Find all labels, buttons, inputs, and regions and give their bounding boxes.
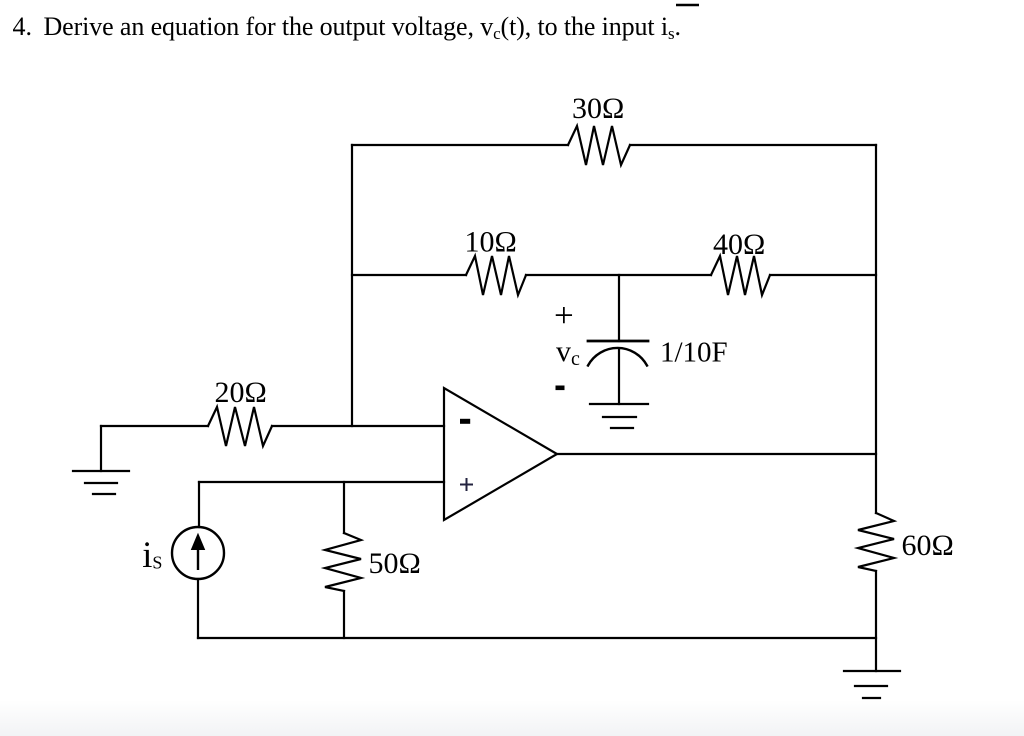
wire top left segment [352, 144, 568, 146]
capacitor C top plate [588, 340, 648, 343]
wire plus input [199, 481, 444, 483]
resistor R 50ohm [325, 533, 361, 591]
ground capacitor [590, 404, 648, 428]
wire bottom [198, 637, 876, 639]
wire output [557, 453, 876, 455]
svg-text:30Ω: 30Ω [572, 92, 624, 125]
wire minus input [101, 425, 208, 427]
svg-text:20Ω: 20Ω [215, 376, 267, 409]
wire source bottom lead [197, 579, 199, 638]
wire left vertical [351, 145, 353, 426]
wire right vertical [875, 145, 877, 513]
ground left [73, 471, 129, 494]
wire capacitor tap [618, 275, 620, 341]
wire top right segment [630, 144, 876, 146]
op-amp U1 [444, 388, 557, 520]
svg-text:40Ω: 40Ω [713, 228, 765, 261]
svg-text:50Ω: 50Ω [369, 547, 421, 580]
label minus vc [556, 386, 565, 391]
wire mid right segment [770, 274, 876, 276]
wire 60ohm to ground [875, 571, 877, 671]
wire 20ohm to op-amp [272, 425, 444, 427]
resistor R 10ohm [466, 256, 526, 295]
resistor R 60ohm [858, 513, 894, 571]
wire left ground drop [100, 426, 102, 471]
svg-text:1/10F: 1/10F [660, 337, 728, 369]
svg-text:+: + [554, 296, 574, 335]
wire mid center segment [526, 274, 711, 276]
ground right [844, 671, 900, 698]
resistor R 40ohm [711, 256, 770, 295]
op-amp plus sign [460, 478, 473, 491]
resistor R 30ohm [568, 126, 630, 165]
wire mid left segment [352, 274, 466, 276]
current source is circle [172, 527, 224, 579]
svg-text:Derive an equation for the out: Derive an equation for the output voltag… [44, 12, 681, 43]
capacitor C curved plate [588, 348, 647, 366]
wire capacitor to ground [618, 350, 620, 404]
svg-text:10Ω: 10Ω [465, 226, 517, 259]
current source arrow [192, 534, 205, 570]
wire 50ohm top lead [343, 482, 345, 533]
op-amp minus sign [460, 419, 470, 424]
overline mark top right [676, 4, 699, 7]
wire 50ohm bottom lead [343, 591, 345, 638]
svg-text:4.: 4. [13, 12, 33, 41]
wire source top lead [198, 482, 200, 527]
svg-text:60Ω: 60Ω [902, 529, 954, 562]
resistor R 20ohm [208, 407, 272, 446]
